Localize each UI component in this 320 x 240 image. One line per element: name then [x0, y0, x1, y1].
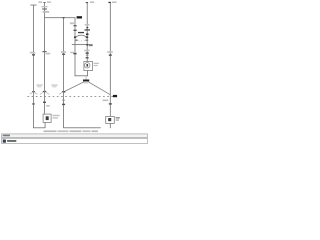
relay K1 contact pad left: [74, 36, 76, 38]
caption diagram title chunk5: [92, 130, 99, 132]
label fuel pump line1: [94, 63, 99, 64]
label connector pin left of W5: [70, 22, 74, 24]
fuse F2 element: [85, 29, 90, 30]
node top dot W7: [108, 2, 111, 3]
wire W10 splice riser: [85, 76, 88, 80]
caption diagram title chunk2: [58, 130, 69, 132]
connector C2 tick on W4: [62, 54, 65, 55]
node N1 tick on W2: [43, 91, 46, 92]
label fuse rating F1: [41, 6, 47, 7]
connector C2 label on W1: [30, 52, 35, 54]
label fuse rating F2: [85, 24, 90, 25]
node N0 stub left: [30, 92, 34, 95]
node N2 stub left: [59, 92, 64, 95]
label hot label right of W7: [112, 1, 117, 3]
ground G1 glyph: [46, 116, 49, 120]
connector C2 tick on W7: [109, 54, 112, 55]
fuse F2 dot: [86, 27, 88, 28]
relay K1 pin pad on W6: [86, 33, 89, 35]
wire splice arm left (to W4): [64, 82, 84, 92]
connector C2 label on W6: [84, 50, 89, 52]
connector C1 tick upper on W5: [74, 25, 77, 26]
junction J1 at x63.5: [63, 17, 65, 19]
wire W2 vertical fused feed (x=44.5): [43, 2, 46, 114]
caption diagram title chunk4: [83, 130, 91, 132]
connector C2 tick on W1: [32, 54, 35, 55]
wire W9 horizontal pump-to-relay (y=75.8): [75, 74, 88, 77]
relay K1 switch arc: [75, 35, 87, 37]
label black tag right of W7: [113, 95, 117, 97]
connector C2 tick on W6: [86, 52, 89, 53]
label ground G1 line2: [53, 117, 59, 118]
connector C1 tick lower on W5: [74, 30, 77, 31]
connector C2 tick2 on W6: [86, 54, 89, 57]
node N0 stub right: [33, 92, 37, 95]
wire W3 horizontal branch (y=17.7): [44, 16, 75, 19]
wire W4 vertical middle (x=63.5): [62, 18, 65, 128]
wire W14 ground bus bottom (y=127.5): [63, 126, 101, 129]
connector C2 label on W5: [70, 52, 74, 54]
wire W1 vertical left circuit (x=33.4): [32, 5, 35, 128]
label left of W7 below tank: [103, 100, 109, 102]
label ground G1 line1: [53, 115, 60, 116]
connector C2 label on W4: [61, 51, 66, 53]
fuel pump M1 box: [84, 62, 93, 71]
connector tick above pump M1: [86, 57, 89, 58]
fuel pump M1 motor glyph: [87, 64, 89, 67]
label hot-at-all-times right of W2: [47, 1, 51, 3]
label hot label right of W6: [90, 1, 94, 3]
wire W13 vertical below C4 (x=110.3): [109, 123, 112, 128]
node N1 stub right: [45, 92, 50, 95]
label wire color above node N2: [51, 85, 57, 86]
relay K1 pin tick at rail crossing: [86, 44, 88, 46]
connector C2 tick on W2: [42, 51, 46, 52]
wire W8 pump return descender (x=87.6): [86, 71, 89, 76]
relay K1 label text: [78, 32, 84, 33]
label connector C4 right: [116, 117, 120, 118]
ground G1 box: [43, 114, 51, 122]
caption diagram title chunk1: [44, 130, 57, 132]
connector C3 label on W2: [46, 105, 50, 107]
connector C4 glyph: [108, 118, 111, 121]
label black wire tag at end of W3: [77, 16, 82, 18]
toolbar bar2 frame: [2, 139, 148, 144]
wire W5 vertical relay coil leg (x=75.0): [74, 18, 77, 76]
label fuse name F1: [43, 11, 50, 13]
connector C2 label on W2: [46, 53, 51, 55]
toolbar bar2 icon: [3, 140, 6, 143]
node N2 tick on W4: [62, 91, 65, 92]
relay K1 pin number right: [86, 40, 89, 42]
toolbar bar2 text: [7, 140, 16, 142]
boundary fuel tank dashed line: [27, 96, 113, 98]
connector C2 label on W7: [107, 51, 113, 53]
connector C3 tick on W4: [62, 104, 65, 105]
toolbar bar1 frame: [2, 134, 148, 138]
node T-top of W1: [30, 4, 36, 7]
connector C3 tick on W1: [32, 103, 35, 104]
label relay K1 designator: [89, 45, 93, 46]
fuse F1 element: [42, 8, 47, 9]
connector C3 tick on W2: [43, 102, 46, 103]
node N1 stub left: [40, 92, 45, 95]
toolbar bar1 text: [3, 135, 10, 137]
relay K1 contact pad right: [86, 36, 88, 38]
wire splice arm right (to W7): [89, 82, 111, 95]
node top tick W6: [86, 2, 88, 3]
connector C3 upper tick on W4: [62, 100, 65, 101]
wire W7 vertical right circuit (x=110.3): [109, 2, 112, 116]
wire W11 ground loop bottom-left: [33, 126, 45, 129]
label hot-at-all-times left of W2: [38, 1, 42, 3]
label wire color above node N1: [36, 85, 42, 86]
connector C3 tick on W7: [109, 103, 112, 104]
connector C4 box on W7: [106, 116, 115, 123]
wire W12 ground loop riser into G1: [44, 123, 47, 128]
label fuel pump line2: [94, 65, 98, 66]
fuel pump M1 motor circle: [85, 63, 90, 68]
wire W6 vertical pump feed (x=87.2): [86, 2, 89, 62]
relay K1 armature dashed line: [76, 40, 87, 42]
node N0 tick on W1: [32, 91, 35, 92]
relay K1 bottom rail: [72, 43, 93, 46]
label connector C4 right line2: [116, 119, 119, 120]
relay K1 pin number left: [75, 40, 78, 42]
label wire color above node N2 line2: [52, 86, 56, 87]
splice S1 label bar: [83, 80, 89, 82]
caption diagram title chunk3: [70, 130, 82, 132]
label wire color above node N1 line2: [37, 86, 41, 87]
connector C2 tick on W5: [73, 53, 76, 54]
label under splice S1: [84, 82, 89, 83]
node top tick W2: [43, 1, 46, 4]
